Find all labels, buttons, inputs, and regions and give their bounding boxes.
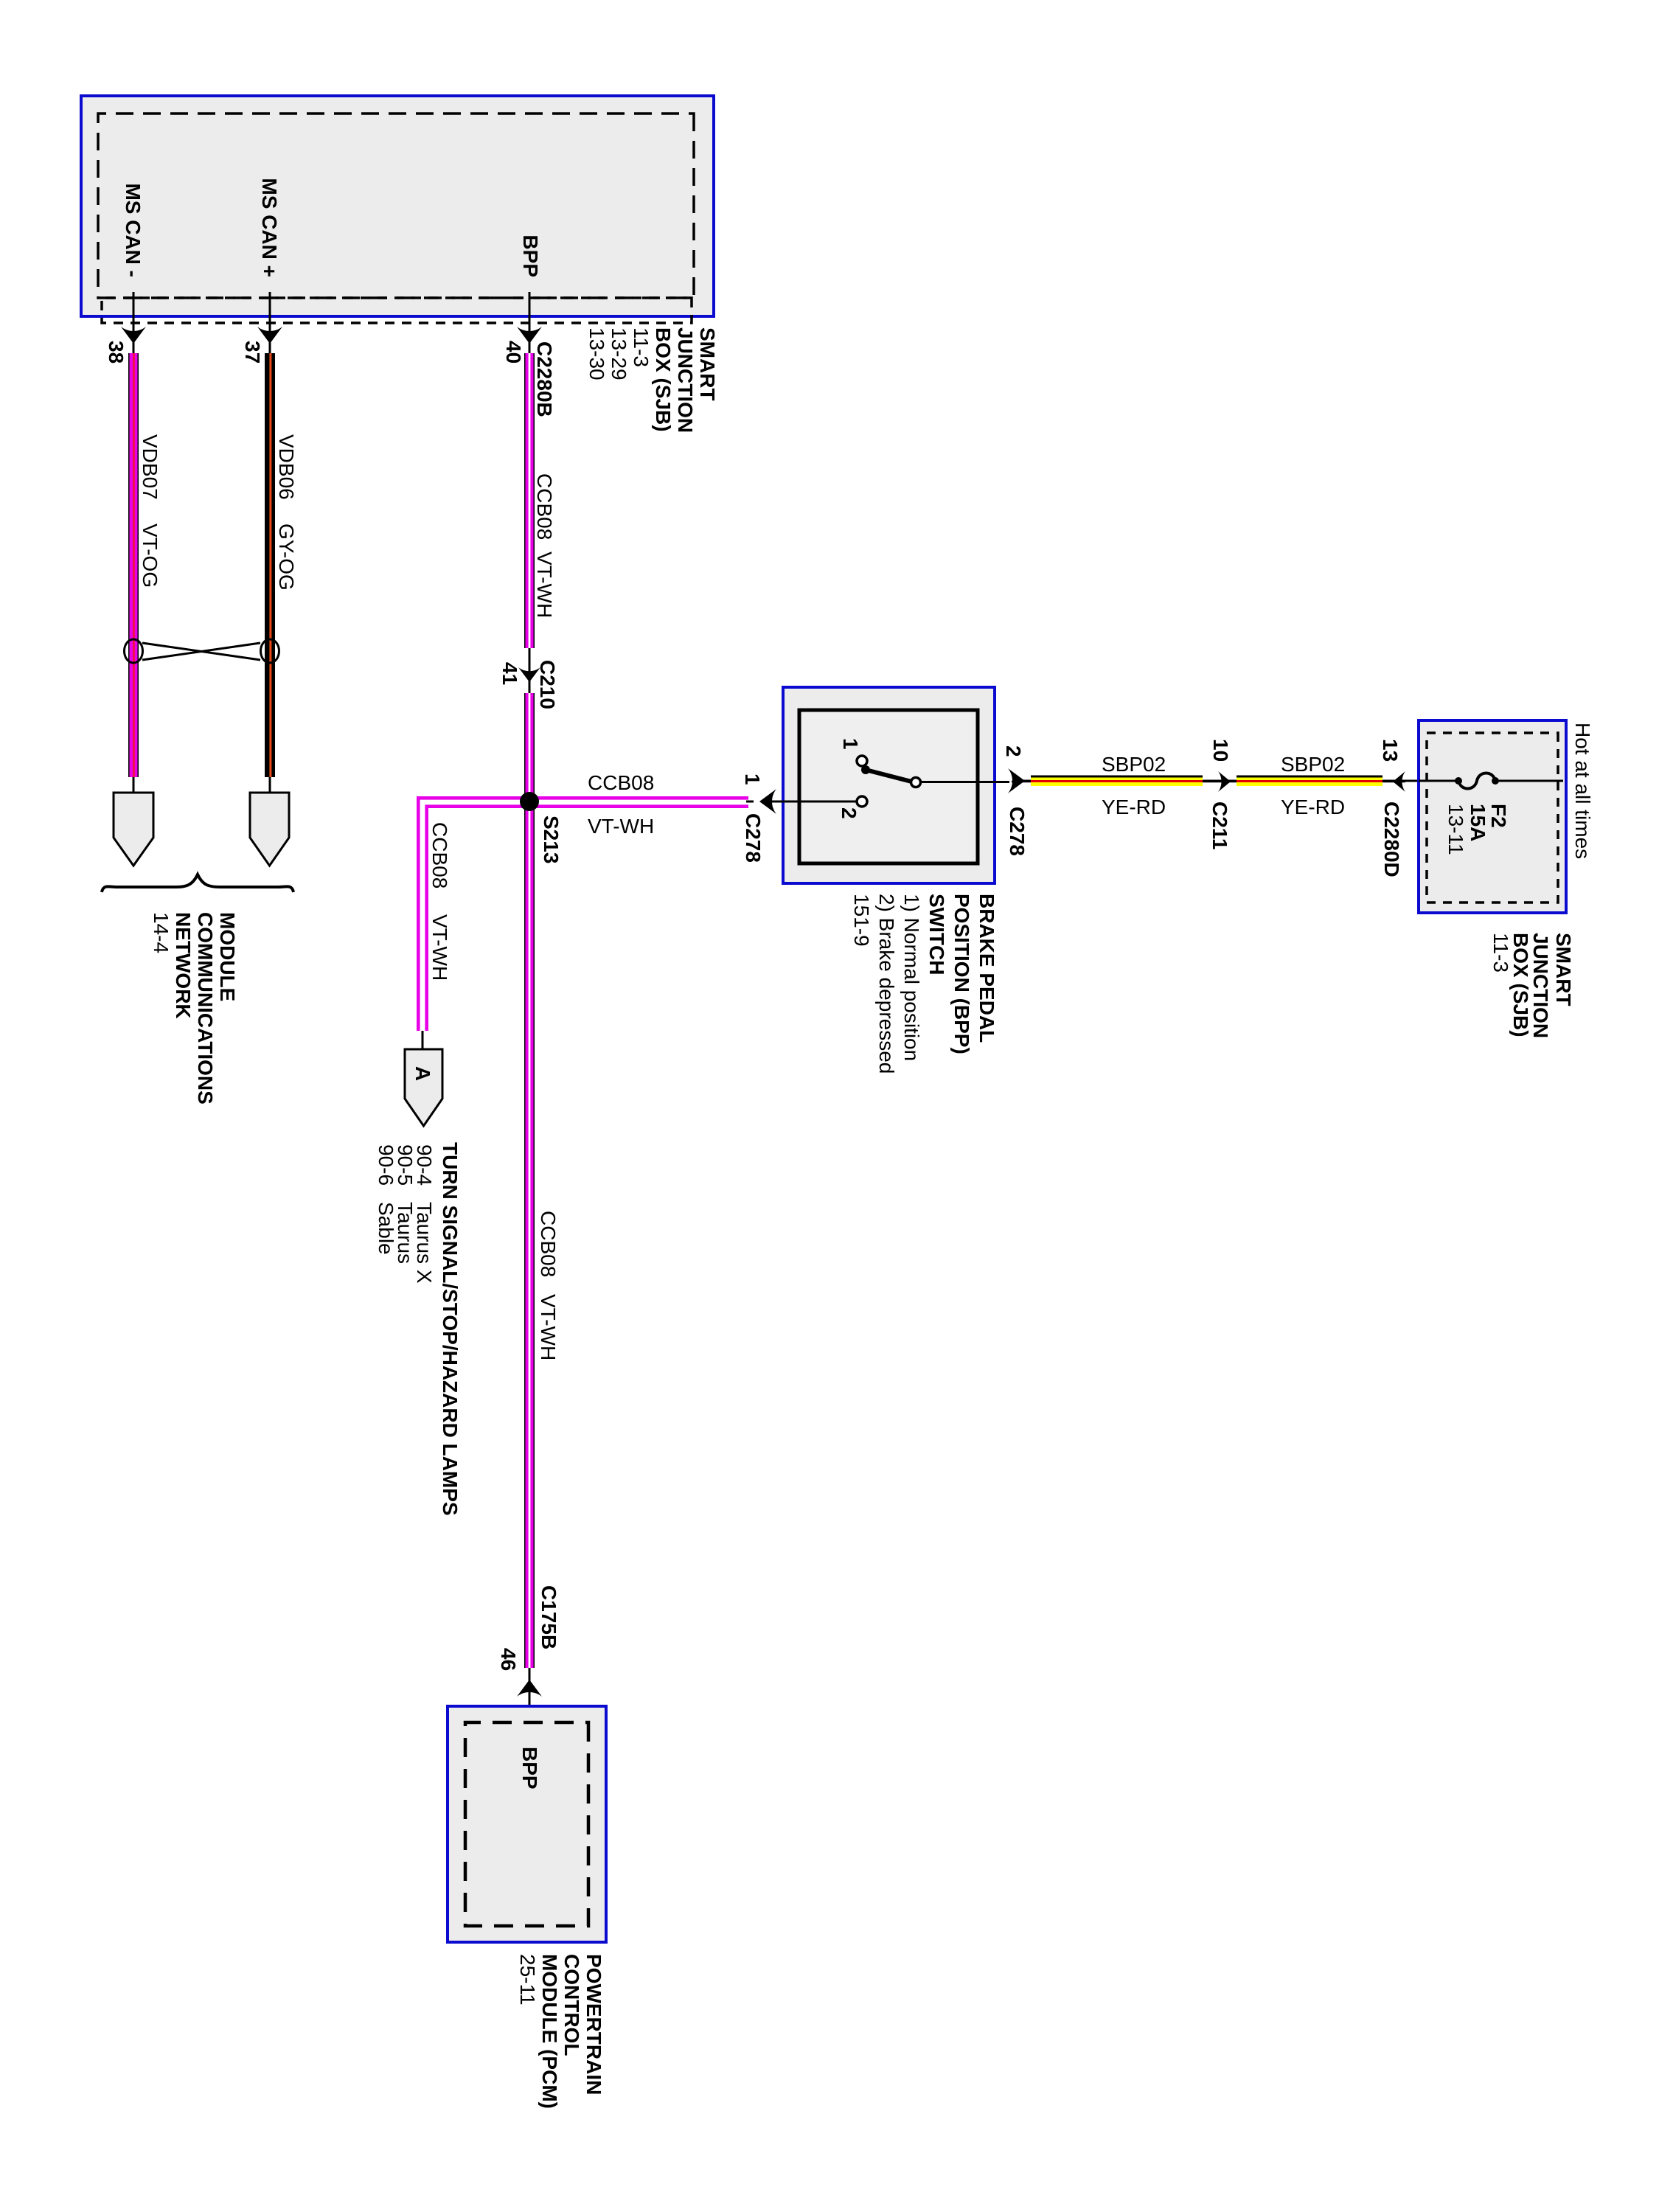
wire CCB08 VT-WH band segment 1 [524,353,535,648]
pin 37 arrow [257,327,282,344]
box SJB right (fuse) [1419,720,1566,913]
label VDB06 GY-OG [275,434,298,591]
connector C278 pin 1 arrow (to switch) [746,801,857,803]
svg-text:C210: C210 [536,660,559,709]
wire lead to cap 2 [269,777,271,794]
svg-text:11-3: 11-3 [630,327,653,367]
connector C175B arrow 46 [517,1680,542,1697]
svg-text:15A: 15A [1467,804,1489,841]
svg-text:38: 38 [105,341,128,364]
wire VDB07 VT-OG band [128,353,139,777]
connector C210 lead [529,648,531,693]
label CCB08 VT-WH segment 1 [533,473,556,618]
svg-text:CCB08: CCB08 [537,1211,560,1277]
fuse F2 symbol [1419,773,1563,789]
svg-text:25-11: 25-11 [516,1954,539,2006]
branch wire to switch and to A (double line) [418,798,748,1031]
connector C278 pin 2 arrow [1008,768,1025,793]
wire pin 40 lead [529,292,531,353]
svg-text:C2280B: C2280B [533,341,556,417]
svg-text:SWITCH: SWITCH [925,894,948,975]
box BPP switch [783,687,995,883]
switch contact 2 [857,796,867,807]
lead to connector A [422,1031,424,1049]
svg-text:VDB07: VDB07 [139,434,161,500]
svg-text:C2280D: C2280D [1380,801,1403,877]
svg-text:40: 40 [502,341,525,364]
connector C2280B strip (dashed) [102,298,692,323]
brace [102,874,293,892]
svg-text:2: 2 [838,807,860,819]
svg-text:VT-WH: VT-WH [533,552,556,618]
svg-text:Sable: Sable [375,1202,397,1255]
svg-text:46: 46 [497,1648,520,1671]
svg-text:C175B: C175B [538,1585,560,1649]
label CCB08 VT-WH segment 2 [537,1211,560,1360]
svg-text:Hot at all times: Hot at all times [1571,723,1594,859]
wire pin 38 lead [133,292,135,353]
switch lever [861,765,921,787]
svg-text:YE-RD: YE-RD [1102,796,1166,818]
svg-text:41: 41 [498,662,521,685]
svg-text:VT-WH: VT-WH [428,914,451,981]
svg-text:C278: C278 [1006,807,1029,856]
svg-text:CCB08: CCB08 [533,473,556,540]
svg-text:BPP: BPP [518,1747,541,1790]
svg-text:MODULE: MODULE [216,912,239,1001]
connector C211 lead [1203,780,1237,782]
svg-text:1: 1 [839,738,862,750]
svg-text:SMART: SMART [696,327,719,401]
connector C2280D arrow 13 [1393,771,1405,792]
svg-text:SMART: SMART [1552,933,1575,1006]
svg-text:POWERTRAIN: POWERTRAIN [582,1954,605,2095]
svg-text:COMMUNICATIONS: COMMUNICATIONS [194,912,217,1105]
label SBP02 YE-RD segment 1 [1102,753,1166,818]
svg-text:S213: S213 [540,815,563,863]
svg-text:CCB08: CCB08 [588,771,654,794]
svg-text:YE-RD: YE-RD [1281,796,1345,818]
box PCM [448,1706,606,1942]
label MODULE COMMUNICATIONS NETWORK 14-4 [150,912,239,1105]
svg-text:10: 10 [1209,739,1232,762]
svg-text:SBP02: SBP02 [1281,753,1345,776]
svg-text:CCB08: CCB08 [428,822,451,888]
svg-text:14-4: 14-4 [150,912,173,953]
svg-text:BOX (SJB): BOX (SJB) [652,327,675,432]
svg-text:C211: C211 [1208,801,1231,849]
svg-text:11-3: 11-3 [1489,933,1512,973]
wire SBP02 YE-RD band segment 1 [1031,776,1203,787]
switch contact 1 [857,756,867,766]
label SMART JUNCTION BOX (SJB) left [585,327,719,433]
fuse F2 15A label [1444,804,1510,855]
svg-text:MODULE (PCM): MODULE (PCM) [538,1954,561,2109]
pin 40 arrow [517,327,542,344]
svg-text:NETWORK: NETWORK [172,912,195,1019]
splice S213 junction dot [520,792,539,811]
svg-text:A: A [411,1066,434,1081]
label CCB08 VT-WH on A branch [428,822,451,981]
svg-text:TURN SIGNAL/STOP/HAZARD LAMPS: TURN SIGNAL/STOP/HAZARD LAMPS [439,1142,462,1516]
svg-text:1: 1 [741,773,764,785]
svg-text:CONTROL: CONTROL [560,1954,583,2056]
connector C2280D lead [1382,780,1419,782]
label 90-4 Taurus [413,1144,436,1284]
svg-text:VDB06: VDB06 [275,434,298,500]
switch common lead up [921,781,1031,782]
svg-text:13-11: 13-11 [1444,804,1467,855]
wire SBP02 YE-RD band segment 2 [1237,776,1382,787]
label 90-5 Taurus [394,1144,417,1264]
svg-text:F2: F2 [1487,804,1510,828]
wire lead into PCM [529,1668,531,1722]
label CCB08 VT-WH on switch branch (rotated) [588,771,654,838]
pin 38 arrow [121,327,146,344]
svg-text:90-6: 90-6 [375,1144,397,1186]
svg-text:VT-WH: VT-WH [537,1294,560,1360]
svg-text:2: 2 [1002,745,1025,757]
svg-text:151-9: 151-9 [850,894,873,947]
wire CCB08 VT-WH band segment 2 [524,693,535,1668]
svg-text:POSITION (BPP): POSITION (BPP) [950,894,973,1054]
label BRAKE PEDAL POSITION (BPP) SWITCH [850,894,998,1074]
svg-text:1) Normal position: 1) Normal position [900,894,923,1061]
svg-text:13-29: 13-29 [608,327,630,380]
svg-text:C278: C278 [742,813,765,863]
svg-text:VT-OG: VT-OG [139,524,161,588]
svg-text:2) Brake depressed: 2) Brake depressed [875,894,898,1074]
box SJB left (Smart Junction Box) [81,96,714,316]
svg-text:MS CAN -: MS CAN - [122,183,145,277]
svg-text:BPP: BPP [519,234,542,277]
wire lead to cap 1 [133,777,135,794]
wire SBP02 YE-RD center line [1012,781,1405,783]
connector cap wire 2 [250,793,289,866]
svg-text:BRAKE PEDAL: BRAKE PEDAL [975,894,998,1043]
wire VDB06 GY-OG band [265,353,275,777]
svg-text:13-30: 13-30 [585,327,608,380]
connector cap wire 1 [114,793,153,866]
connector C211 arrow 10 [1218,771,1231,792]
connector C210 arrow 41 [518,667,540,682]
svg-text:VT-WH: VT-WH [588,815,654,838]
svg-text:37: 37 [241,341,264,364]
svg-text:SBP02: SBP02 [1102,753,1166,776]
label SMART JUNCTION BOX (SJB) right [1489,933,1575,1038]
connector A cap [405,1049,442,1126]
label POWERTRAIN CONTROL MODULE (PCM) 25-11 [516,1954,605,2109]
label 90-6 Sable [375,1144,397,1255]
twisted pair symbol [125,639,279,663]
label VDB07 VT-OG [139,434,161,588]
svg-text:13: 13 [1379,739,1402,762]
svg-text:MS CAN +: MS CAN + [258,178,281,277]
svg-text:GY-OG: GY-OG [275,524,298,591]
wire pin 37 lead [269,292,271,353]
label SBP02 YE-RD segment 2 [1281,753,1345,818]
svg-text:JUNCTION: JUNCTION [674,327,697,433]
